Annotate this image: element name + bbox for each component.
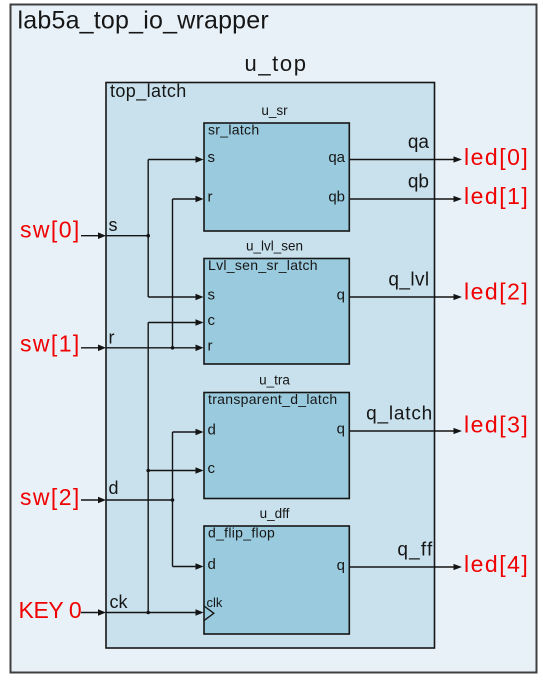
wire d vertical — [172, 432, 174, 567]
svg-text:d: d — [109, 478, 119, 498]
clk edge wedge of d_flip_flop — [204, 606, 214, 621]
wire s to sr_latch — [148, 159, 196, 161]
arrow q_latch to led[3] — [454, 428, 463, 434]
svg-text:qa: qa — [328, 149, 345, 166]
svg-text:d: d — [208, 556, 216, 573]
wire ck to Lvl_sen_sr_latch c — [148, 322, 196, 324]
svg-text:KEY 0: KEY 0 — [19, 597, 82, 623]
svg-text:u_dff: u_dff — [260, 506, 290, 521]
wire ck vertical — [147, 323, 149, 613]
svg-text:s: s — [109, 215, 118, 235]
junction ck to c of transparent latch — [146, 469, 150, 473]
wire sw[0] stub — [81, 235, 98, 237]
arrow into top_latch ck — [98, 609, 106, 616]
arrow r into sr_latch — [196, 196, 204, 203]
block U2 Lvl_sen_sr_latch — [204, 259, 349, 365]
svg-text:qb: qb — [328, 189, 345, 206]
svg-text:q: q — [337, 287, 345, 304]
wire r horizontal — [106, 347, 196, 349]
junction ck — [146, 611, 150, 615]
junction s — [146, 234, 150, 238]
svg-text:c: c — [208, 312, 216, 329]
svg-text:d: d — [208, 422, 216, 439]
svg-text:r: r — [109, 328, 115, 348]
arrow into top_latch s — [98, 232, 106, 239]
svg-text:u_tra: u_tra — [259, 373, 290, 388]
block U3 transparent_d_latch — [204, 393, 349, 499]
arrow into top_latch d — [98, 497, 106, 504]
svg-text:r: r — [208, 338, 213, 355]
svg-text:sw[2]: sw[2] — [20, 484, 81, 510]
junction d — [171, 498, 175, 502]
svg-text:sw[1]: sw[1] — [20, 331, 81, 357]
arrow q_ff to led[4] — [454, 564, 463, 570]
wire q_lvl — [349, 296, 454, 298]
wire q_ff — [349, 566, 454, 568]
arrow qa to led[0] — [454, 156, 463, 162]
arrow s into Lvl_sen_sr_latch — [196, 294, 204, 301]
wire q_latch — [349, 430, 454, 432]
wire s to Lvl_sen_sr_latch — [148, 296, 196, 298]
wire qa — [349, 159, 454, 161]
wire sw[2] stub — [81, 499, 98, 501]
wire d to transparent_d_latch — [173, 431, 197, 433]
svg-text:q_ff: q_ff — [397, 540, 433, 561]
wire qb — [349, 198, 454, 200]
arrow c into transparent_d_latch — [196, 467, 204, 474]
svg-text:transparent_d_latch: transparent_d_latch — [208, 391, 337, 407]
svg-text:d_flip_flop: d_flip_flop — [208, 525, 275, 541]
wire sw[1] stub — [81, 347, 98, 349]
svg-text:u_top: u_top — [245, 51, 308, 76]
wire ck to transparent_d_latch c — [148, 470, 196, 472]
svg-text:led[4]: led[4] — [464, 551, 529, 577]
svg-text:r: r — [208, 189, 213, 206]
arrow c into Lvl_sen_sr_latch — [196, 319, 204, 326]
svg-text:qa: qa — [408, 132, 430, 153]
arrow r into Lvl_sen_sr_latch — [196, 345, 204, 352]
svg-text:q: q — [337, 421, 345, 438]
svg-text:qb: qb — [408, 172, 429, 193]
wire d horizontal — [106, 499, 173, 501]
arrow d into d_flip_flop — [196, 563, 204, 570]
svg-text:u_lvl_sen: u_lvl_sen — [246, 239, 303, 254]
block U4 d_flip_flop — [204, 526, 349, 634]
arrow into top_latch r — [98, 345, 106, 352]
arrow s into sr_latch — [196, 156, 204, 163]
wire ck horizontal — [106, 612, 196, 614]
svg-text:s: s — [208, 287, 216, 304]
svg-text:q_lvl: q_lvl — [388, 270, 429, 291]
svg-text:top_latch: top_latch — [110, 81, 187, 102]
svg-text:led[3]: led[3] — [464, 412, 529, 438]
svg-text:sw[0]: sw[0] — [20, 217, 81, 243]
svg-text:led[0]: led[0] — [464, 144, 529, 170]
junction r — [171, 346, 175, 350]
svg-text:lab5a_top_io_wrapper: lab5a_top_io_wrapper — [18, 7, 269, 35]
arrow q_lvl to led[2] — [454, 294, 463, 300]
svg-text:s: s — [208, 149, 216, 166]
block U1 sr_latch — [204, 123, 349, 231]
svg-text:q_latch: q_latch — [366, 404, 433, 425]
svg-text:Lvl_sen_sr_latch: Lvl_sen_sr_latch — [208, 257, 318, 273]
wire d to d_flip_flop — [173, 566, 197, 568]
svg-text:led[2]: led[2] — [464, 279, 529, 305]
svg-text:u_sr: u_sr — [261, 103, 288, 118]
svg-text:sr_latch: sr_latch — [208, 122, 259, 138]
wire KEY 0 stub — [81, 612, 98, 614]
svg-text:q: q — [337, 557, 345, 574]
arrow qb to led[1] — [454, 196, 463, 202]
arrow d into transparent_d_latch — [196, 429, 204, 436]
svg-text:ck: ck — [110, 592, 129, 612]
svg-text:clk: clk — [207, 595, 223, 610]
wire s horizontal — [106, 235, 148, 237]
wire r to sr_latch — [173, 198, 197, 200]
arrow ck into d_flip_flop clk — [196, 609, 204, 616]
svg-text:led[1]: led[1] — [464, 183, 529, 209]
svg-text:c: c — [208, 460, 216, 477]
wire r vertical — [172, 199, 174, 348]
wire s vertical — [147, 160, 149, 298]
module top_latch — [106, 83, 435, 649]
